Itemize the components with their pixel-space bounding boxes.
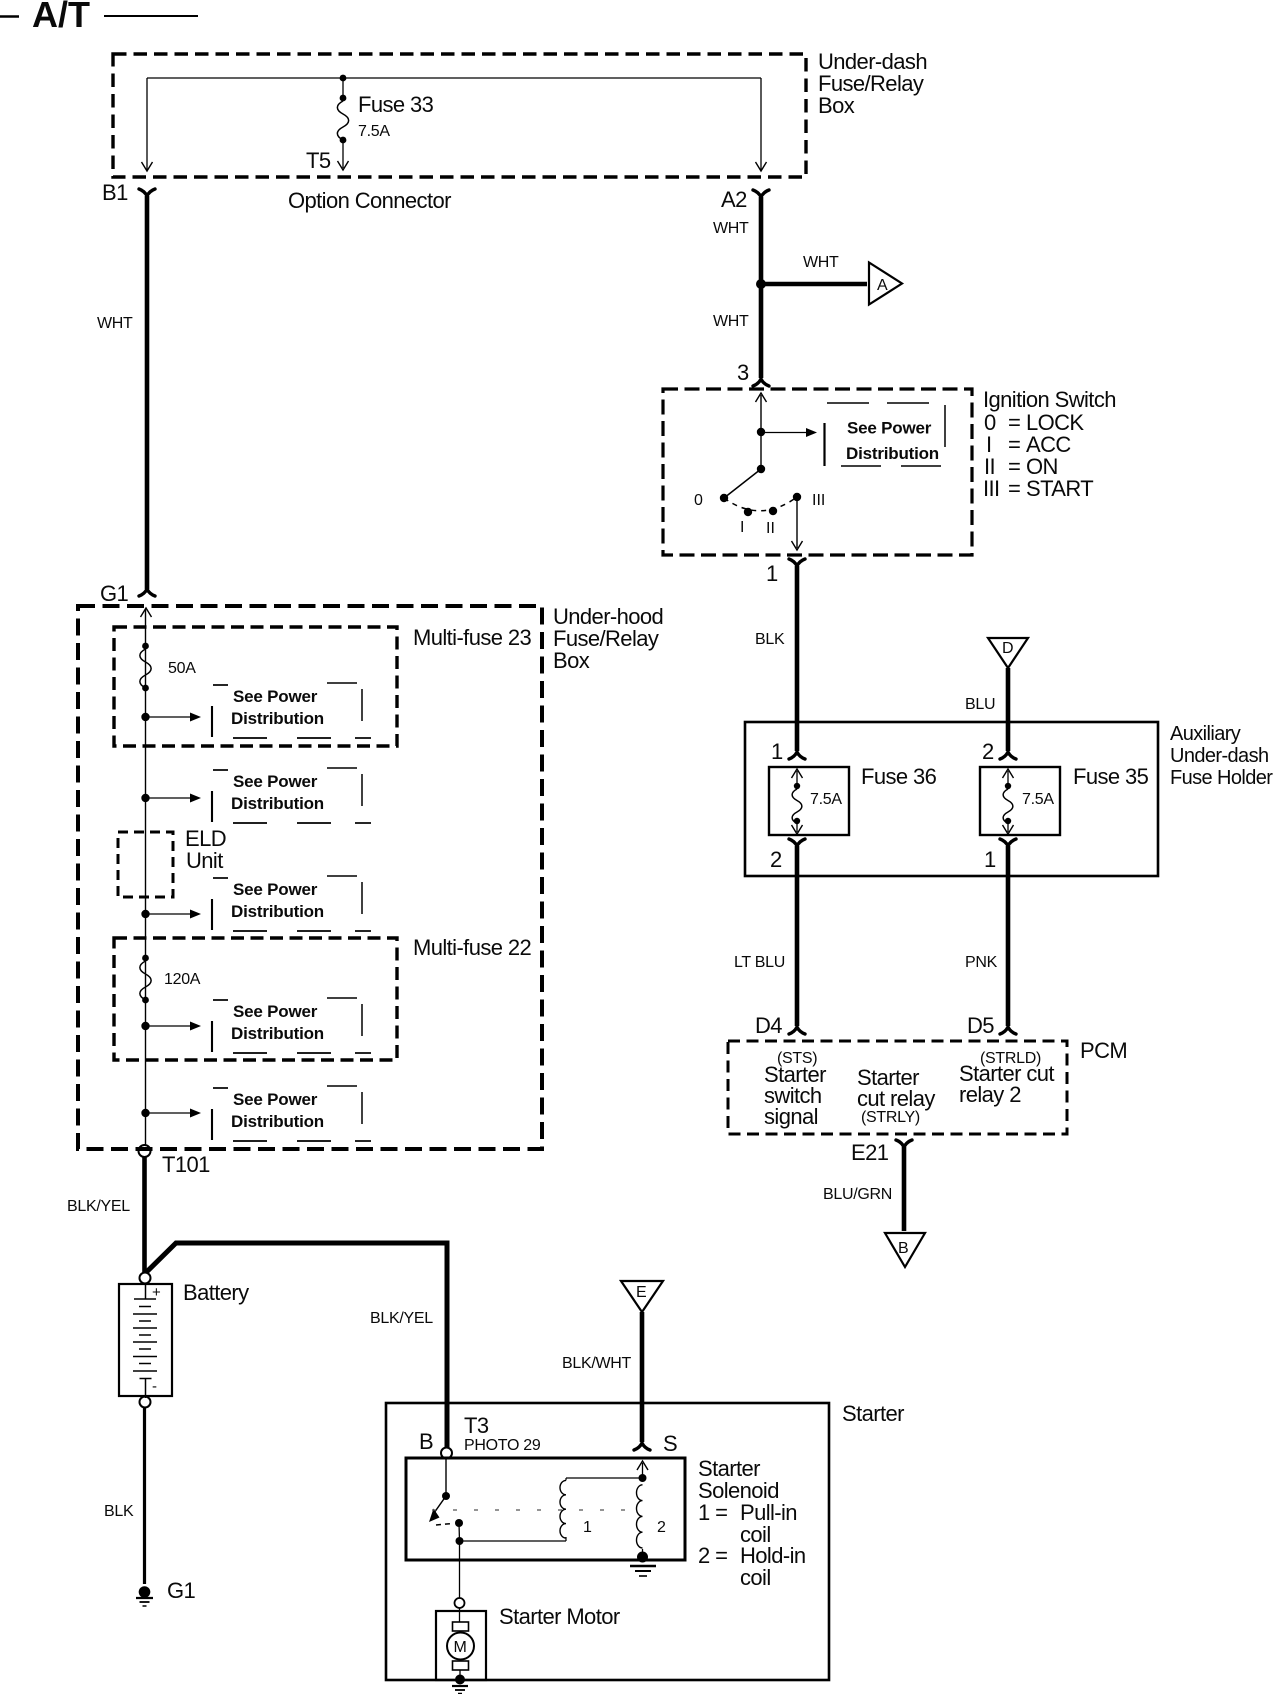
svg-text:III: III: [812, 492, 825, 509]
svg-text:See Power: See Power: [847, 419, 932, 438]
svg-text:-: -: [152, 1378, 157, 1395]
svg-text:0: 0: [694, 492, 703, 509]
svg-text:BLU/GRN: BLU/GRN: [823, 1186, 892, 1203]
svg-text:WHT: WHT: [97, 315, 133, 332]
svg-text:D4: D4: [755, 1013, 782, 1038]
svg-text:S: S: [663, 1431, 677, 1456]
svg-text:Under-dash: Under-dash: [1170, 745, 1269, 767]
svg-text:I: I: [740, 519, 744, 536]
svg-text:B1: B1: [102, 180, 128, 205]
svg-text:PCM: PCM: [1080, 1038, 1127, 1063]
svg-text:M: M: [454, 1639, 467, 1656]
svg-text:Battery: Battery: [183, 1280, 249, 1305]
svg-text:BLK/YEL: BLK/YEL: [370, 1310, 433, 1327]
svg-text:B: B: [898, 1240, 908, 1257]
svg-text:2 =: 2 =: [698, 1543, 727, 1568]
svg-text:7.5A: 7.5A: [1022, 791, 1054, 808]
svg-text:1: 1: [984, 847, 996, 872]
svg-text:BLK: BLK: [755, 631, 785, 648]
svg-text:A: A: [877, 277, 888, 294]
svg-text:E: E: [636, 1284, 646, 1301]
svg-text:WHT: WHT: [803, 254, 839, 271]
svg-text:7.5A: 7.5A: [810, 791, 842, 808]
svg-text:=: =: [1008, 476, 1020, 501]
svg-text:III: III: [983, 476, 1000, 501]
svg-text:Fuse 35: Fuse 35: [1073, 764, 1149, 789]
svg-text:1: 1: [766, 561, 778, 586]
svg-text:Box: Box: [553, 648, 590, 673]
svg-text:START: START: [1026, 476, 1093, 501]
svg-text:(STRLY): (STRLY): [861, 1109, 920, 1126]
svg-text:Auxiliary: Auxiliary: [1170, 723, 1241, 745]
svg-text:LT BLU: LT BLU: [734, 954, 785, 971]
svg-text:Multi-fuse 23: Multi-fuse 23: [413, 625, 532, 650]
svg-text:T3: T3: [464, 1413, 489, 1438]
svg-text:Option Connector: Option Connector: [288, 188, 451, 213]
svg-text:1: 1: [771, 739, 783, 764]
svg-text:Distribution: Distribution: [846, 444, 939, 463]
svg-text:Fuse 33: Fuse 33: [358, 92, 434, 117]
svg-text:Box: Box: [818, 93, 855, 118]
svg-text:+: +: [152, 1284, 161, 1301]
svg-text:BLK: BLK: [104, 1503, 134, 1520]
svg-text:T5: T5: [306, 148, 331, 173]
svg-text:3: 3: [737, 360, 749, 385]
svg-text:7.5A: 7.5A: [358, 123, 390, 140]
svg-text:BLU: BLU: [965, 696, 995, 713]
svg-text:120A: 120A: [164, 971, 201, 988]
svg-text:1 =: 1 =: [698, 1500, 727, 1525]
svg-text:50A: 50A: [168, 660, 196, 677]
svg-text:Ignition Switch: Ignition Switch: [983, 387, 1116, 412]
svg-text:Fuse Holder: Fuse Holder: [1170, 767, 1273, 789]
svg-text:Multi-fuse 22: Multi-fuse 22: [413, 935, 532, 960]
svg-text:PNK: PNK: [965, 954, 998, 971]
svg-text:G1: G1: [167, 1578, 196, 1603]
svg-text:Fuse 36: Fuse 36: [861, 764, 937, 789]
svg-text:Starter: Starter: [842, 1401, 904, 1426]
svg-text:cut relay: cut relay: [857, 1086, 935, 1111]
svg-text:relay 2: relay 2: [959, 1082, 1021, 1107]
svg-text:1: 1: [583, 1519, 592, 1536]
svg-text:II: II: [766, 520, 775, 537]
svg-text:A/T: A/T: [32, 0, 90, 35]
svg-text:E21: E21: [851, 1140, 889, 1165]
svg-text:BLK/YEL: BLK/YEL: [67, 1198, 130, 1215]
svg-text:2: 2: [770, 847, 782, 872]
svg-text:coil: coil: [740, 1565, 771, 1590]
svg-text:signal: signal: [764, 1104, 818, 1129]
svg-text:PHOTO 29: PHOTO 29: [464, 1437, 541, 1454]
svg-text:A2: A2: [721, 187, 747, 212]
svg-text:BLK/WHT: BLK/WHT: [562, 1355, 632, 1372]
svg-text:B: B: [419, 1429, 433, 1454]
svg-text:D: D: [1002, 640, 1013, 657]
svg-text:G1: G1: [100, 581, 129, 606]
svg-text:WHT: WHT: [713, 220, 749, 237]
svg-text:2: 2: [982, 739, 994, 764]
svg-text:Starter Motor: Starter Motor: [499, 1604, 620, 1629]
svg-text:2: 2: [657, 1519, 666, 1536]
svg-text:WHT: WHT: [713, 313, 749, 330]
svg-text:T101: T101: [162, 1152, 210, 1177]
svg-text:D5: D5: [967, 1013, 994, 1038]
svg-text:Unit: Unit: [186, 848, 223, 873]
